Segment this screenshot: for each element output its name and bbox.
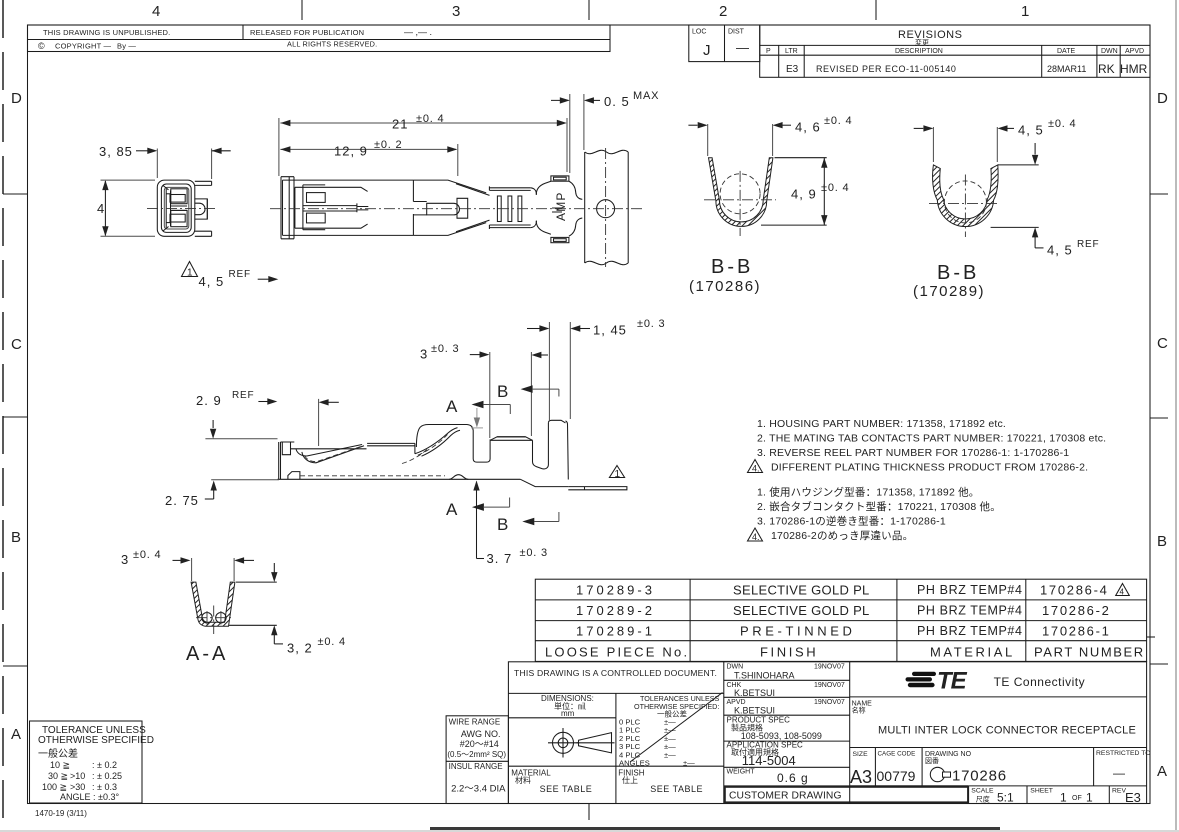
svg-text:SIZE: SIZE: [853, 751, 869, 758]
right column: TE logo and name: [849, 662, 851, 804]
svg-text:: ± 0.25: : ± 0.25: [92, 771, 122, 781]
customer drawing cell (thick): [725, 787, 968, 803]
B-B 170286 crimp walls (hatched): [709, 158, 773, 227]
svg-text:170286: 170286: [952, 768, 1007, 785]
dim 0.5 MAX: [551, 90, 659, 173]
svg-text:E3: E3: [786, 64, 799, 75]
dim 3.7 +-0.3: [473, 481, 548, 567]
svg-text:170289-1: 170289-1: [576, 624, 655, 639]
svg-text:1: 1: [1086, 791, 1093, 805]
svg-text:: ± 0.2: : ± 0.2: [92, 760, 117, 770]
svg-text:DWN: DWN: [1101, 48, 1118, 55]
front view outer body: [157, 180, 195, 236]
svg-text:170289-3: 170289-3: [576, 583, 655, 598]
outer boxes: [446, 716, 508, 804]
dim 2.9 REF: [196, 390, 339, 446]
svg-text:THIS DRAWING IS A CONTROLL: THIS DRAWING IS A CONTROLLED DOCUMENT.: [514, 668, 717, 678]
front view lower cavity: [170, 210, 187, 226]
svg-text:—: —: [736, 40, 749, 55]
svg-text:mm: mm: [561, 709, 575, 718]
svg-text:12, 9: 12, 9: [334, 144, 368, 159]
svg-text:図番: 図番: [925, 757, 939, 765]
svg-text:±0. 4: ±0. 4: [821, 182, 849, 194]
zone ticks left: [3, 193, 28, 195]
svg-text:MATERIAL: MATERIAL: [930, 645, 1015, 660]
svg-text:DIFFERENT PLATING THICKNESS PR: DIFFERENT PLATING THICKNESS PRODUCT FROM…: [771, 462, 1088, 474]
A-A dim 3.2 +-0.4 right: [229, 563, 346, 656]
dim 12.9 +-0.2: [280, 139, 457, 176]
svg-text:B-B: B-B: [711, 256, 753, 278]
svg-text:— ,— .: — ,— .: [404, 27, 432, 37]
svg-text:10 ≧: 10 ≧: [50, 760, 70, 770]
svg-text:4.: 4.: [752, 464, 760, 474]
svg-text:170286-2のめっき厚違い品。: 170286-2のめっき厚違い品。: [771, 529, 913, 542]
svg-text:3. 170286-1の逆巻き型番：1-170286-1: 3. 170286-1の逆巻き型番：1-170286-1: [757, 515, 946, 528]
plan barrel serrations: [497, 196, 521, 222]
svg-text:AWG NO.: AWG NO.: [461, 729, 501, 739]
svg-text:ANGLE : ±0.3°: ANGLE : ±0.3°: [60, 792, 119, 802]
svg-text:PH BRZ TEMP#4: PH BRZ TEMP#4: [917, 604, 1023, 618]
svg-text:仕上: 仕上: [622, 775, 638, 785]
B-B 170286 dim 4.9 +-0.4: [761, 158, 849, 225]
svg-text:19NOV07: 19NOV07: [814, 699, 845, 706]
plan centerline: [270, 208, 642, 210]
side view main outline: [278, 420, 627, 490]
svg-text:2.2～3.4 DIA: 2.2～3.4 DIA: [451, 784, 506, 795]
dim 3.85: [99, 144, 231, 179]
svg-text:4, 6: 4, 6: [795, 120, 821, 135]
svg-text:±—: ±—: [664, 750, 676, 759]
svg-text:FINISH: FINISH: [760, 645, 818, 660]
notch 1: [473, 431, 490, 463]
svg-text:#20～#14: #20～#14: [460, 739, 499, 749]
svg-text:>10: >10: [70, 771, 85, 781]
warning triangle 1 (side view): [609, 466, 624, 481]
svg-text:NAME: NAME: [852, 701, 873, 708]
svg-text:4, 5: 4, 5: [1047, 243, 1073, 258]
svg-text:±0. 3: ±0. 3: [431, 343, 459, 355]
svg-text:THIS DRAWING IS UNPUBLISHED: THIS DRAWING IS UNPUBLISHED.: [43, 28, 170, 37]
svg-text:WEIGHT: WEIGHT: [727, 769, 756, 776]
svg-text:3: 3: [452, 3, 460, 20]
svg-text:一般公差: 一般公差: [38, 747, 78, 760]
svg-text:REF: REF: [1077, 239, 1099, 250]
B-B 170286 wire circle: [720, 174, 760, 214]
svg-text:DESCRIPTION: DESCRIPTION: [895, 48, 943, 55]
svg-text:B: B: [1157, 533, 1167, 550]
front view top flange: [195, 181, 212, 185]
svg-text:(0.5～2mm² SQ): (0.5～2mm² SQ): [447, 750, 506, 759]
svg-text:(170286): (170286): [689, 278, 761, 295]
svg-text:0. 5: 0. 5: [604, 94, 630, 109]
svg-text:CAGE CODE: CAGE CODE: [878, 751, 916, 758]
svg-text:PART NUMBER: PART NUMBER: [1034, 645, 1145, 660]
svg-text:170289-2: 170289-2: [576, 603, 655, 618]
A-A crimp walls (hatched): [191, 582, 235, 626]
svg-text:AMP: AMP: [554, 191, 568, 221]
svg-text:2: 2: [719, 3, 727, 20]
plan insulation barrel ears: [551, 176, 569, 243]
LOC / DIST box: [689, 25, 760, 62]
svg-text:B: B: [497, 515, 508, 534]
svg-text:PRE-TINNED: PRE-TINNED: [740, 624, 855, 639]
projection symbol: [548, 728, 615, 758]
svg-text:ALL RIGHTS RESERVED.: ALL RIGHTS RESERVED.: [287, 40, 377, 49]
svg-text:170286-2: 170286-2: [1042, 603, 1111, 618]
plan view lance cutout: [413, 198, 467, 218]
svg-text:±—: ±—: [683, 759, 695, 768]
plan view center slot: [303, 203, 368, 212]
svg-text:D: D: [11, 90, 22, 107]
front view centerline: [147, 207, 217, 209]
svg-text:>30: >30: [70, 782, 85, 792]
svg-text:MAX: MAX: [633, 90, 659, 102]
section A letters and arrows: [446, 397, 510, 519]
plan view contact teeth: [307, 193, 326, 223]
svg-text:A: A: [11, 726, 21, 743]
svg-text:OTHERWISE SPECIFIED: OTHERWISE SPECIFIED: [38, 735, 154, 746]
B-B 170286 dim 4.6 +-0.4: [688, 115, 852, 156]
svg-text:100 ≧: 100 ≧: [42, 782, 67, 792]
front view bottom flange: [195, 231, 212, 236]
svg-text:170286-4: 170286-4: [1040, 583, 1109, 598]
B-B 170289 dim 4.5 +-0.4: [914, 118, 1077, 165]
B-B 170289 wire circle: [944, 181, 986, 223]
svg-text:170286-1: 170286-1: [1042, 624, 1111, 639]
svg-text:00779: 00779: [877, 768, 916, 784]
svg-text:HMR: HMR: [1120, 62, 1148, 76]
bottom row: [967, 786, 969, 804]
center column rows: [724, 679, 850, 681]
svg-text:±0. 4: ±0. 4: [824, 115, 852, 127]
svg-text:K.BETSUI: K.BETSUI: [734, 688, 775, 698]
svg-text:INSUL RANGE: INSUL RANGE: [449, 762, 503, 771]
svg-text:MULTI INTER LOCK CONNECTOR: MULTI INTER LOCK CONNECTOR RECEPTACLE: [878, 725, 1136, 737]
dim 1.45 +-0.3: [527, 318, 665, 420]
zone ticks top: [301, 0, 303, 20]
dim 4 (height): [97, 180, 155, 236]
hump: [416, 425, 473, 448]
REVISIONS block: [760, 25, 1150, 77]
svg-text:4: 4: [97, 201, 104, 216]
svg-text:0.6 g: 0.6 g: [777, 771, 809, 785]
svg-text:DRAWING NO: DRAWING NO: [925, 751, 972, 758]
svg-text:REVISED PER ECO-11-005140: REVISED PER ECO-11-005140: [816, 64, 956, 74]
svg-text:A3: A3: [850, 767, 872, 787]
TE logo: [906, 668, 968, 695]
svg-text:1: 1: [1021, 3, 1029, 20]
tolerance list: [619, 718, 695, 768]
dim 3 +-0.3 (block width): [420, 343, 548, 438]
left column: controlled document + dimensions/tolerances: [508, 692, 723, 694]
svg-text:SEE TABLE: SEE TABLE: [650, 784, 703, 794]
svg-text:4, 5: 4, 5: [199, 274, 225, 289]
page right edge grey line: [1175, 0, 1177, 832]
B-B 170289 dim 4.5 REF: [991, 227, 1100, 257]
svg-text:©: ©: [38, 41, 45, 51]
top-left header box: [28, 25, 611, 52]
rear wall: [548, 420, 565, 423]
svg-text:A: A: [1157, 763, 1167, 780]
front view left inner channel: [163, 186, 171, 232]
svg-text:±0. 4: ±0. 4: [318, 636, 346, 648]
svg-text:3: 3: [420, 347, 427, 362]
inner dashed seams: [300, 475, 445, 477]
page left edge dashed line: [2, 0, 4, 832]
note 4 triangle (jp): [748, 528, 763, 541]
svg-text:DWN: DWN: [727, 664, 744, 671]
svg-text:3. 7: 3. 7: [487, 551, 513, 566]
svg-text:CUSTOMER DRAWING: CUSTOMER DRAWING: [729, 791, 842, 802]
svg-text:名称: 名称: [852, 706, 866, 715]
dim 21 +-0.4: [279, 113, 567, 176]
svg-text:±0. 3: ±0. 3: [637, 318, 665, 330]
svg-text:APVD: APVD: [1125, 48, 1144, 55]
svg-text:1: 1: [1060, 791, 1067, 805]
svg-text:RELEASED FOR PUBLICATION: RELEASED FOR PUBLICATION: [250, 28, 364, 37]
block top: [490, 437, 532, 441]
bottom scan bar: [430, 827, 1000, 832]
svg-text:SHEET: SHEET: [1030, 788, 1053, 795]
plan view outline: [281, 177, 490, 239]
svg-text:2. THE MATING TAB CONTACTS PAR: 2. THE MATING TAB CONTACTS PART NUMBER: …: [757, 433, 1106, 445]
svg-text:4, 9: 4, 9: [791, 187, 817, 202]
svg-text:3: 3: [121, 552, 128, 567]
svg-text:2. 75: 2. 75: [165, 493, 199, 508]
svg-text:ANGLES: ANGLES: [619, 759, 650, 768]
note 4 triangle (en): [748, 460, 763, 473]
svg-text:1470-19 (3/11): 1470-19 (3/11): [35, 809, 87, 818]
plan view inner box lines: [295, 185, 368, 230]
dim 2.75: [165, 480, 279, 508]
svg-text:D: D: [1157, 90, 1168, 107]
svg-text:RK: RK: [1098, 62, 1115, 76]
svg-text:A: A: [446, 500, 458, 519]
svg-text:A-A: A-A: [186, 643, 228, 665]
grey down arrow to hump: [471, 408, 483, 428]
svg-text:LOOSE PIECE No.: LOOSE PIECE No.: [545, 645, 689, 660]
plan rear neck outline: [536, 181, 582, 236]
svg-text:材料: 材料: [515, 775, 531, 785]
svg-text:3, 85: 3, 85: [99, 144, 133, 159]
svg-text:2. 嵌合タブコンタクト型番：170221, 170308: 2. 嵌合タブコンタクト型番：170221, 170308 他。: [757, 500, 1001, 513]
svg-text:PH BRZ TEMP#4: PH BRZ TEMP#4: [917, 583, 1023, 597]
svg-text:4: 4: [152, 3, 160, 20]
svg-text:REF: REF: [229, 269, 251, 280]
svg-text:PH BRZ TEMP#4: PH BRZ TEMP#4: [917, 624, 1023, 638]
svg-text:SEE TABLE: SEE TABLE: [540, 784, 593, 794]
svg-text:(170289): (170289): [913, 283, 985, 300]
svg-text:LOC: LOC: [692, 29, 706, 36]
svg-text:TE: TE: [937, 668, 968, 695]
svg-text:1. 使用ハウジング型番：171358, 171892 他。: 1. 使用ハウジング型番：171358, 171892 他。: [757, 486, 980, 499]
svg-text:±0. 2: ±0. 2: [374, 139, 402, 151]
svg-text:変更: 変更: [915, 38, 929, 47]
svg-text:T.SHINOHARA: T.SHINOHARA: [734, 671, 795, 681]
A-A dim 3 +-0.4: [121, 549, 254, 581]
A-A crosshair targets: [196, 606, 232, 635]
svg-text:±0. 4: ±0. 4: [1048, 118, 1076, 130]
zone ticks right: [1150, 193, 1168, 195]
svg-text:LTR: LTR: [785, 48, 798, 55]
svg-text:19NOV07: 19NOV07: [814, 664, 845, 671]
svg-text:K.BETSUI: K.BETSUI: [734, 706, 775, 716]
svg-text:B: B: [497, 382, 508, 401]
svg-text:DIST: DIST: [728, 29, 745, 36]
N/A slash: [630, 693, 723, 763]
front view center slot lines: [171, 205, 187, 207]
svg-text:3, 2: 3, 2: [287, 641, 313, 656]
svg-text:: ± 0.3: : ± 0.3: [92, 782, 117, 792]
svg-text:REVISIONS: REVISIONS: [898, 29, 962, 41]
svg-text:30 ≧: 30 ≧: [48, 771, 68, 781]
bottom: [278, 478, 521, 480]
zone tick bottom: [588, 804, 590, 820]
svg-text:4, 5: 4, 5: [1018, 123, 1044, 138]
svg-text:WIRE RANGE: WIRE RANGE: [449, 718, 501, 727]
svg-text:—: —: [1113, 766, 1125, 780]
transition top: [412, 180, 414, 235]
svg-text:±0. 4: ±0. 4: [416, 113, 444, 125]
svg-text:114-5004: 114-5004: [742, 753, 796, 768]
svg-text:REF: REF: [232, 390, 254, 401]
svg-text:1. HOUSING PART NUMBER: 171358: 1. HOUSING PART NUMBER: 171358, 171892 e…: [757, 418, 1006, 430]
svg-text:A: A: [446, 397, 458, 416]
svg-text:COPYRIGHT —: COPYRIGHT —: [55, 42, 112, 51]
B-B 170286 centerlines: [704, 199, 776, 201]
svg-text:DATE: DATE: [1057, 48, 1075, 55]
svg-text:OF: OF: [1072, 795, 1082, 802]
size row: [850, 747, 1147, 749]
svg-text:19NOV07: 19NOV07: [814, 682, 845, 689]
carrier strip: [585, 148, 629, 267]
svg-text:SELECTIVE GOLD PL: SELECTIVE GOLD PL: [733, 603, 870, 618]
svg-text:21: 21: [392, 117, 408, 132]
svg-text:B: B: [11, 529, 21, 546]
svg-text:C: C: [1157, 335, 1168, 352]
svg-text:2. 9: 2. 9: [196, 393, 222, 408]
svg-text:RESTRICTED TO: RESTRICTED TO: [1096, 750, 1151, 757]
svg-text:±0. 4: ±0. 4: [133, 549, 161, 561]
front view upper cavity: [170, 189, 187, 204]
plan wire barrel wings: [489, 186, 536, 229]
svg-text:±0. 3: ±0. 3: [520, 547, 548, 559]
B-B 170289 crimp walls (hatched): [933, 165, 999, 227]
front view right tab: [195, 199, 208, 219]
warning triangle 1 with 4.5 REF leader: [182, 262, 279, 290]
svg-text:E3: E3: [1125, 790, 1141, 805]
svg-text:4.: 4.: [752, 532, 760, 542]
svg-text:3. REVERSE REEL PART NUMBER FO: 3. REVERSE REEL PART NUMBER FOR 170286-1…: [757, 447, 1069, 459]
svg-text:28MAR11: 28MAR11: [1047, 64, 1086, 74]
svg-text:B-B: B-B: [937, 262, 979, 284]
table triangle 4: [1116, 584, 1130, 596]
svg-text:尺度: 尺度: [976, 795, 990, 804]
svg-text:SCALE: SCALE: [971, 788, 994, 795]
svg-text:1: 1: [187, 268, 193, 279]
svg-text:5:1: 5:1: [997, 791, 1014, 805]
svg-text:C: C: [11, 336, 22, 353]
svg-text:J: J: [703, 42, 711, 59]
svg-text:P: P: [766, 48, 771, 55]
svg-text:4: 4: [1120, 588, 1125, 597]
svg-text:By —: By —: [117, 42, 136, 51]
svg-text:1: 1: [615, 469, 621, 480]
B-B 170289 centerlines: [929, 202, 999, 204]
svg-text:SELECTIVE GOLD PL: SELECTIVE GOLD PL: [733, 583, 870, 598]
section B letters and arrows: [497, 382, 559, 534]
notch 2: [533, 423, 549, 469]
svg-text:TE Connectivity: TE Connectivity: [994, 675, 1086, 689]
svg-text:108-5093, 108-5099: 108-5093, 108-5099: [741, 731, 822, 741]
svg-text:1, 45: 1, 45: [593, 323, 627, 338]
